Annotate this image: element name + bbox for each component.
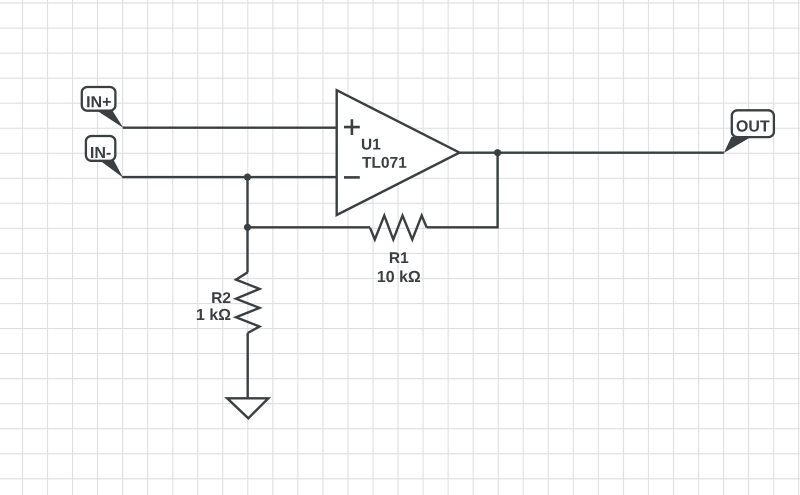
wire feedback node down to resistor R2 top lead (246, 227, 248, 272)
label R2 designator (212, 292, 230, 303)
wire feedback node to resistor R1 left lead (248, 226, 371, 228)
label U1 value TL071 (362, 157, 406, 168)
label R1 designator (390, 252, 408, 263)
net flag IN- (86, 136, 123, 178)
wire resistor R2 bottom lead to ground (246, 333, 248, 398)
op-amp U1 (337, 90, 460, 215)
label U1 designator (362, 139, 381, 150)
op-amp U1 noninverting pin symbol + (344, 119, 360, 135)
junction node at inverting input (244, 174, 251, 181)
junction node at op-amp output (494, 149, 501, 156)
wire IN- flag to op-amp inverting input (122, 176, 337, 178)
wire IN+ flag to op-amp noninverting input (123, 126, 337, 128)
junction node at feedback (244, 224, 251, 231)
resistor R1 (370, 216, 427, 240)
net flag OUT (724, 110, 774, 153)
wire inverting-input node down to feedback node (246, 177, 248, 227)
resistor R2 (236, 272, 260, 333)
wire op-amp output to OUT flag (460, 151, 724, 153)
label R2 value 1 kOhm (197, 308, 231, 320)
net flag IN+ (82, 87, 124, 128)
op-amp U1 inverting pin symbol - (344, 176, 360, 179)
ground (227, 398, 268, 418)
wire resistor R1 right lead up to output node (427, 153, 498, 228)
label R1 value 10 kOhm (378, 270, 420, 282)
